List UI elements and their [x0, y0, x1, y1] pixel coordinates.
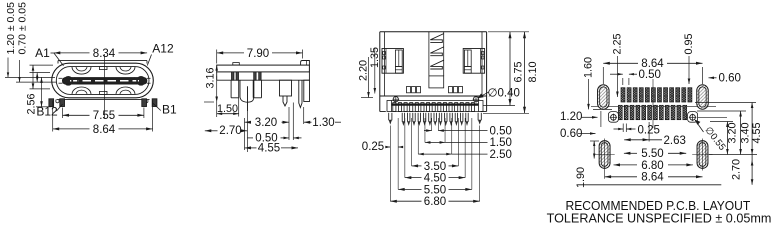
svg-text:2.70: 2.70 — [731, 159, 743, 180]
svg-text:1.50: 1.50 — [490, 137, 512, 149]
svg-text:8.64: 8.64 — [93, 124, 116, 136]
svg-text:TOLERANCE UNSPECIFIED ± 0.05mm: TOLERANCE UNSPECIFIED ± 0.05mm — [547, 211, 772, 226]
svg-text:5.50: 5.50 — [424, 184, 446, 196]
svg-text:2.25: 2.25 — [612, 33, 624, 54]
svg-text:8.10: 8.10 — [527, 61, 539, 82]
svg-text:A12: A12 — [152, 42, 174, 56]
svg-text:7.90: 7.90 — [247, 48, 269, 60]
svg-text:2.63: 2.63 — [664, 135, 686, 147]
svg-text:B1: B1 — [162, 103, 177, 117]
svg-text:6.75: 6.75 — [513, 61, 525, 82]
svg-text:2.20: 2.20 — [358, 60, 370, 81]
svg-text:1.20: 1.20 — [560, 111, 582, 123]
svg-text:0.95: 0.95 — [683, 33, 695, 54]
svg-text:3.50: 3.50 — [424, 161, 446, 173]
svg-text:3.20: 3.20 — [255, 117, 277, 129]
svg-text:4.50: 4.50 — [424, 173, 446, 185]
svg-text:8.34: 8.34 — [93, 48, 116, 60]
svg-text:0.50: 0.50 — [639, 69, 661, 81]
svg-text:4.55: 4.55 — [258, 143, 280, 155]
svg-text:0.50: 0.50 — [490, 125, 512, 137]
svg-text:A1: A1 — [35, 46, 50, 60]
svg-text:0.60: 0.60 — [719, 73, 741, 85]
svg-text:6.80: 6.80 — [641, 160, 663, 172]
svg-text:3.40: 3.40 — [740, 122, 752, 143]
svg-text:3.16: 3.16 — [205, 67, 217, 88]
svg-text:0.60: 0.60 — [560, 128, 582, 140]
svg-text:1.90: 1.90 — [575, 167, 587, 188]
svg-text:8.64: 8.64 — [641, 172, 664, 184]
svg-text:7.55: 7.55 — [93, 110, 115, 122]
svg-text:1.20 ± 0.05: 1.20 ± 0.05 — [5, 2, 17, 55]
svg-text:0.70 ± 0.05: 0.70 ± 0.05 — [17, 2, 29, 55]
svg-text:4.55: 4.55 — [751, 122, 763, 143]
svg-text:∅0.40: ∅0.40 — [488, 88, 520, 100]
svg-text:6.80: 6.80 — [424, 196, 446, 208]
svg-text:1.30: 1.30 — [312, 117, 334, 129]
svg-text:2.70: 2.70 — [219, 125, 241, 137]
svg-text:1.50: 1.50 — [217, 103, 238, 115]
svg-text:3.20: 3.20 — [727, 122, 739, 143]
svg-text:2.50: 2.50 — [490, 149, 512, 161]
svg-text:2.56: 2.56 — [26, 93, 38, 114]
svg-text:1.60: 1.60 — [583, 57, 595, 78]
svg-text:0.25: 0.25 — [362, 141, 384, 153]
svg-text:5.50: 5.50 — [641, 148, 663, 160]
svg-text:0.25: 0.25 — [638, 124, 660, 136]
